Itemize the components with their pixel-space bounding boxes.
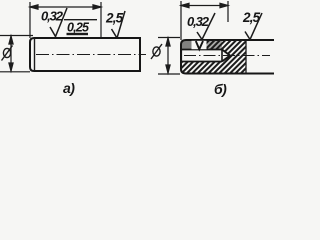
svg-text:0,32: 0,32 <box>41 9 64 24</box>
hole outline: top line <box>181 49 222 51</box>
diameter symbol (b) <box>151 44 162 59</box>
roughness check mark (a, 2.5) <box>112 11 126 38</box>
upper band density overlay <box>182 41 222 50</box>
bottom extension of diameter (a) <box>0 71 30 73</box>
white knockout of drilled hole (b) <box>182 50 231 62</box>
svg-text:0,32: 0,32 <box>187 14 210 29</box>
roughness check mark (b, 2.5) <box>245 13 262 40</box>
hole end face <box>221 50 223 62</box>
hatching (b section) <box>170 38 282 74</box>
extension line left (b, x=181) <box>180 1 182 40</box>
extension line right (b, x=228) <box>227 1 229 22</box>
shelf line of check <box>64 19 97 21</box>
svg-text:а): а) <box>63 80 75 96</box>
roughness check mark (b, 0.32, on outer edge) <box>197 13 215 40</box>
inner check vertex touching hole surface <box>196 41 203 49</box>
hole outline: bottom line <box>181 61 222 63</box>
centerline (a) <box>36 54 146 56</box>
dimension line A (top span of polished zone) <box>30 5 101 9</box>
dimension line B (hole depth) <box>181 3 228 7</box>
diameter dimension line (a) <box>9 36 13 71</box>
top extension of diameter (a) <box>0 35 33 37</box>
centerline (b) <box>184 55 270 57</box>
white halo box in hatch under check <box>192 41 207 49</box>
bottom extension of diameter (b) <box>158 73 180 75</box>
diameter dimension line (b) <box>166 38 170 73</box>
diameter symbol (a) <box>2 46 13 61</box>
svg-text:0,25: 0,25 <box>67 21 90 35</box>
extension line right (x=101) <box>100 2 102 44</box>
shaft body outline (a) <box>30 38 140 71</box>
drill point cone <box>222 50 230 62</box>
part body outline (b) <box>181 40 274 74</box>
chamfer line at left end <box>34 39 36 71</box>
extension line left (x=30) <box>29 2 31 38</box>
upper band extra density left corner <box>182 41 192 50</box>
hole left opening edge at part face <box>180 50 182 62</box>
roughness check mark (a, 0.32) <box>50 8 67 37</box>
svg-text:б): б) <box>214 81 227 97</box>
section boundary line (b, x=246) <box>245 40 247 74</box>
underline of 0,25 <box>67 33 89 35</box>
top extension of diameter (b) <box>158 37 180 39</box>
